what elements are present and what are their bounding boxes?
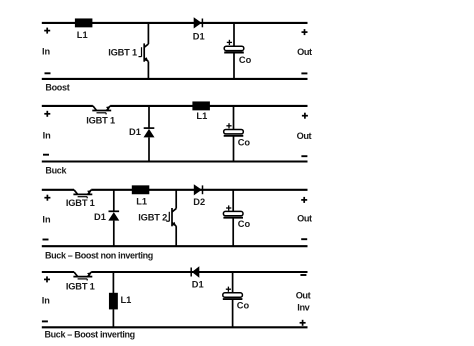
capacitor Co (buck-boost-inv) [223,293,243,297]
label + polarity of Co (buck) [226,123,231,128]
wire: boost output cap bottom lead [233,53,235,79]
label + input terminal (buck) [44,111,50,117]
label - output terminal (boost) [301,72,307,74]
svg-text:In: In [43,131,52,141]
svg-text:Co: Co [238,219,251,229]
wire: buck-boost-ni cap top lead [232,190,234,212]
wire: buck-boost-ni top rail right of IGBT 1 [91,189,307,191]
svg-text:IGBT 1: IGBT 1 [66,198,95,208]
label - input terminal (boost) [45,72,51,74]
svg-text:Buck – Boost non inverting: Buck – Boost non inverting [45,250,153,260]
transistor IGBT 1 (boost switch) [139,43,149,61]
inductor L1 (buck-boost-ni) [132,185,150,194]
wire: buck-boost-ni top rail left of IGBT 1 [42,189,74,191]
label + polarity of Co (buck-boost-ni) [226,205,231,210]
label - output terminal (buck) [301,155,307,157]
svg-text:IGBT 1: IGBT 1 [66,281,95,291]
wire: buck freewheel diode top lead [148,106,150,128]
wire: boost bottom rail [42,78,308,80]
diode D1 (buck-boost-ni freewheel) [109,210,120,212]
svg-text:Out: Out [297,47,312,57]
wire: buck-boost-inv bottom rail [42,326,308,328]
label + polarity of Co (boost) [227,40,232,45]
transistor IGBT 1 (buck-boost-ni buck switch) [73,190,92,199]
transistor IGBT 2 (buck-boost-ni boost switch) [166,208,176,226]
label - input terminal (buck-boost-ni) [43,239,49,241]
capacitor Co (buck) [224,130,244,134]
svg-text:Out: Out [297,131,312,141]
wire: boost output cap top lead [233,23,235,47]
svg-text:IGBT 1: IGBT 1 [108,48,137,58]
diode D1 (buck freewheel) [144,127,155,129]
label + input terminal (buck-boost-ni) [44,195,50,201]
transistor IGBT 1 (buck switch) [92,106,111,115]
capacitor Co (boost) [224,46,244,50]
svg-text:D1: D1 [94,212,106,222]
svg-text:L1: L1 [196,111,207,121]
label - input terminal (buck) [43,154,49,156]
wire: buck-boost-ni bottom rail [42,245,308,247]
wire: buck output cap bottom lead [233,136,235,162]
wire: buck-boost-inv inductor bottom lead [112,309,114,327]
svg-text:Buck: Buck [45,166,67,176]
svg-text:D1: D1 [129,127,141,137]
svg-text:L1: L1 [136,197,147,207]
wire: buck output cap top lead [233,106,235,130]
wire: buck-boost-inv inductor top lead [112,272,114,293]
label + output terminal (buck) [302,113,308,119]
svg-text:D1: D1 [192,280,204,290]
wire: buck-boost-inv top rail right of IGBT 1 [91,271,307,273]
svg-text:D1: D1 [193,31,205,41]
wire: buck top rail left of IGBT [42,105,93,107]
svg-text:Co: Co [238,138,251,148]
svg-text:Co: Co [239,55,252,65]
wire: boost IGBT emitter to bottom rail [147,62,149,79]
label + output terminal (buck-boost-inv, bottom) [300,320,306,326]
diode D1 (buck-boost-inv output) [190,268,192,277]
svg-text:In: In [42,296,51,306]
inductor L1 (boost) [75,18,93,27]
svg-text:Inv: Inv [297,302,310,312]
svg-text:Co: Co [237,301,250,311]
svg-text:IGBT 2: IGBT 2 [138,212,167,222]
wire: buck-boost-ni IGBT 2 collector lead [175,190,177,209]
inductor L1 (buck-boost-inv, vertical) [109,293,118,310]
label - output terminal (buck-boost-ni) [301,238,307,240]
wire: buck-boost-ni D1 top lead [113,190,115,212]
svg-text:Boost: Boost [45,83,69,93]
svg-text:Buck – Boost inverting: Buck – Boost inverting [45,330,135,340]
svg-text:L1: L1 [121,295,132,305]
svg-text:Out: Out [296,291,311,301]
wire: buck-boost-inv cap top lead [232,272,234,293]
transistor IGBT 1 (buck-boost-inv switch) [73,272,92,281]
svg-text:In: In [42,215,51,225]
wire: buck bottom rail [42,160,308,162]
label + input terminal (buck-boost-inv) [44,276,50,282]
wire: buck-boost-ni D1 bottom lead [113,221,115,247]
label + polarity of Co (buck-boost-inv) [226,287,231,292]
wire: buck-boost-ni IGBT 2 emitter lead [175,226,177,246]
svg-text:L1: L1 [77,30,88,40]
label + output terminal (buck-boost-ni) [301,197,307,203]
svg-text:Out: Out [297,214,312,224]
label - output terminal (buck-boost-inv, top) [300,274,306,276]
label + input terminal (boost) [44,28,50,34]
wire: buck-boost-inv top rail left of IGBT 1 [42,271,74,273]
wire: boost switch-node drop to IGBT collector [147,23,149,44]
inductor L1 (buck) [192,101,210,110]
svg-text:IGBT 1: IGBT 1 [86,116,115,126]
diode D1 (boost) [194,17,202,28]
label - input terminal (buck-boost-inv) [42,320,48,322]
wire: buck-boost-ni cap bottom lead [232,218,234,247]
label + output terminal (boost) [302,29,308,35]
wire: boost top rail [42,22,308,24]
svg-text:D2: D2 [193,197,205,207]
capacitor Co (buck-boost-ni) [223,211,243,215]
diode D2 (buck-boost-ni output) [194,184,202,195]
wire: buck freewheel diode bottom lead [148,137,150,161]
wire: buck top rail right of IGBT [110,105,307,107]
svg-text:In: In [42,47,51,57]
wire: buck-boost-inv cap bottom lead [232,299,234,327]
